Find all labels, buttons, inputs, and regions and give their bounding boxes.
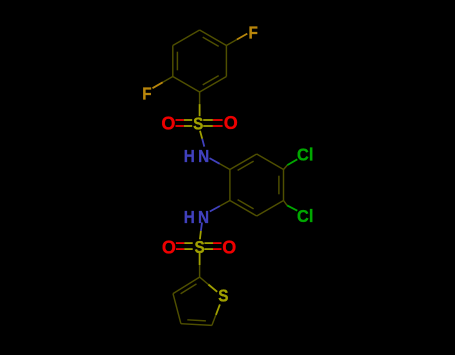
- wire ring1 edge 2: [173, 30, 200, 46]
- svg-text:O: O: [161, 114, 175, 134]
- svg-text:H: H: [184, 207, 195, 227]
- bond S2-C2prime: [199, 253, 201, 265]
- bond N1-ring: [210, 158, 220, 164]
- bond C-Cl top: [284, 165, 288, 169]
- S=O double bond right (S2): [204, 242, 213, 244]
- svg-text:O: O: [222, 237, 236, 257]
- wire ring1 edge 3: [200, 30, 227, 46]
- wire ring2 edge 2: [283, 170, 285, 201]
- svg-text:O: O: [162, 237, 176, 257]
- bond C5-F (to top-right F): [226, 40, 237, 46]
- bond N2-ring: [210, 206, 220, 212]
- wire ring1 edge 4: [225, 46, 227, 77]
- bond C5p-C4p: [181, 324, 212, 326]
- bond S(thio)-C5p: [216, 304, 220, 315]
- svg-text:N: N: [198, 207, 209, 227]
- S=O double bond right (S1): [203, 119, 213, 121]
- svg-text:F: F: [142, 83, 151, 103]
- bond C3p-C2p: [173, 277, 200, 294]
- wire ring1 edge 0: [173, 77, 200, 93]
- double bond inner line A1=A2: [238, 161, 254, 170]
- wire ring1 edge 5: [200, 77, 227, 93]
- double bond inner line C2=C3: [176, 52, 178, 71]
- wire ring2 edge 5: [229, 170, 231, 201]
- double bond inner line C6=C1: [203, 76, 219, 85]
- bond C2p-S(thio): [200, 277, 209, 284]
- S=O double bond left (S2): [176, 242, 184, 244]
- bond S1-N1: [200, 131, 202, 139]
- double bond inner line A3=A4: [278, 176, 280, 195]
- svg-text:Cl: Cl: [297, 205, 313, 226]
- double bond inner line C2p=C3p: [181, 284, 197, 294]
- bond N2-S2: [201, 223, 202, 231]
- svg-text:H: H: [184, 146, 195, 166]
- double bond inner line C4p=C5p: [187, 320, 206, 321]
- svg-text:F: F: [249, 22, 258, 42]
- svg-text:S: S: [193, 113, 203, 133]
- bond C4p-C3p: [173, 294, 181, 324]
- svg-text:N: N: [198, 146, 209, 166]
- bond C1-S1: [199, 92, 201, 104]
- S=O double bond left (S1): [176, 119, 184, 121]
- wire ring2 edge 4: [230, 201, 257, 217]
- svg-text:Cl: Cl: [297, 144, 313, 165]
- svg-text:O: O: [224, 113, 238, 133]
- wire ring1 edge 1: [172, 46, 174, 77]
- wire ring2 edge 3: [257, 201, 284, 217]
- double bond inner line C4=C5: [203, 37, 219, 46]
- bond C2-F (to bottom-left F): [163, 77, 173, 83]
- bond C-Cl bottom: [284, 201, 288, 206]
- double bond inner line A5=A6: [238, 200, 254, 209]
- wire ring2 edge 1: [257, 154, 284, 170]
- wire ring2 edge 0: [230, 154, 257, 170]
- svg-text:S: S: [218, 285, 228, 305]
